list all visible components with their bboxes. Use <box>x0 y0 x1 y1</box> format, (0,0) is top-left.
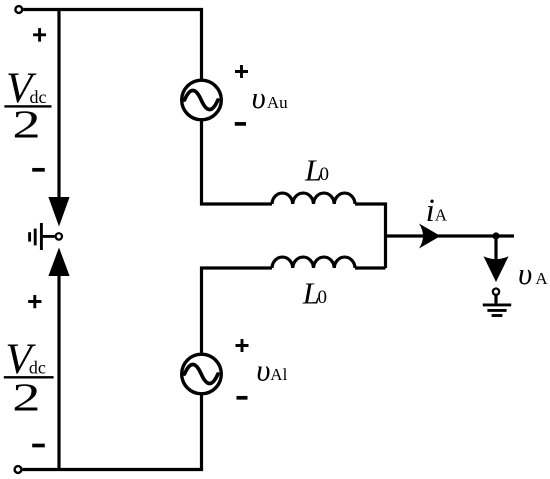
svg-text:Au: Au <box>267 93 288 112</box>
svg-text:2: 2 <box>12 103 40 146</box>
svg-text:0: 0 <box>318 287 328 308</box>
svg-text:υ: υ <box>252 80 266 115</box>
svg-text:A: A <box>535 269 548 288</box>
svg-text:2: 2 <box>12 375 40 418</box>
svg-text:i: i <box>426 193 435 229</box>
svg-text:0: 0 <box>320 164 330 185</box>
svg-text:A: A <box>435 206 448 225</box>
svg-text:υ: υ <box>518 256 532 291</box>
svg-text:υ: υ <box>256 352 270 387</box>
svg-text:Al: Al <box>270 365 287 384</box>
